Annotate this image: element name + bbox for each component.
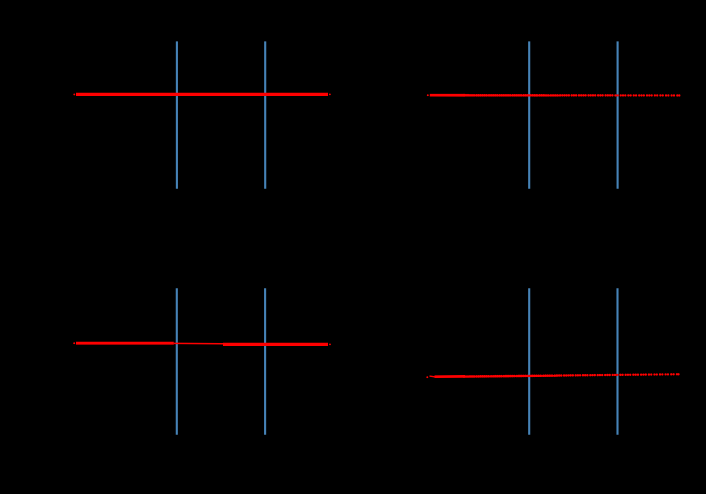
wire TL-redline <box>76 93 328 96</box>
wire TR-underline <box>464 94 560 96</box>
node BL-dotR <box>329 344 331 346</box>
wire BR-thinlead <box>430 375 435 378</box>
wire BR-dots <box>463 373 680 378</box>
node TR-vline1 <box>528 41 530 188</box>
node TL-dotR <box>329 94 331 96</box>
wire BL-red-thinmid <box>174 342 223 344</box>
node TL-vline2 <box>264 41 266 188</box>
node TL-vline1 <box>176 41 178 188</box>
node TR-vline2 <box>617 41 619 188</box>
node BR-dotstart <box>426 376 428 378</box>
node BR-vline1 <box>528 288 530 435</box>
wire BR-underline <box>464 375 558 378</box>
node BR-vline2 <box>616 288 618 435</box>
wire BL-red-thickright <box>223 343 328 346</box>
node BL-vline1 <box>176 288 178 435</box>
node BL-vline2 <box>264 288 266 435</box>
node TR-dotstart <box>427 94 429 96</box>
node BL-dotL <box>73 342 75 344</box>
wire BR-solid <box>435 375 466 378</box>
wire TR-dots <box>463 94 681 97</box>
wire BL-red-thickleft <box>76 342 174 345</box>
wire TR-solid <box>430 94 465 97</box>
node TL-dotL <box>73 93 75 95</box>
